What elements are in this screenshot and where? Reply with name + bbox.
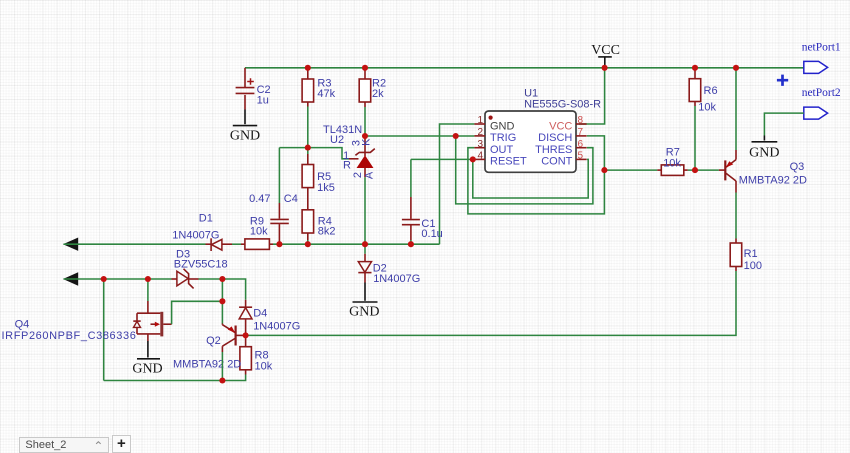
diode D4 1N4007G xyxy=(239,300,300,336)
wire D3 to D4 branch xyxy=(199,279,246,300)
transistor Q4 IRFP260 xyxy=(2,301,172,342)
svg-text:GND: GND xyxy=(749,146,779,161)
diode D2 1N4007G xyxy=(358,254,420,285)
svg-text:6: 6 xyxy=(578,139,584,150)
svg-text:Q3: Q3 xyxy=(790,161,805,173)
svg-text:C4: C4 xyxy=(284,193,298,205)
pin 4 RESET xyxy=(474,151,527,168)
svg-text:VCC: VCC xyxy=(591,43,620,58)
svg-text:3: 3 xyxy=(477,139,483,150)
wire R6 bottom xyxy=(694,106,696,170)
net flag arrow 1 xyxy=(63,238,78,251)
svg-text:R: R xyxy=(343,159,351,171)
power flag VCC xyxy=(591,43,620,68)
wire TL431 R-pin from divider xyxy=(308,148,349,159)
svg-text:GND: GND xyxy=(490,120,515,132)
wire ground rail right xyxy=(273,243,440,245)
wire left vertical xyxy=(103,279,105,381)
ground GND (C2) xyxy=(230,110,260,144)
svg-text:0.47: 0.47 xyxy=(249,193,270,205)
svg-text:Q4: Q4 xyxy=(15,319,30,331)
ground GND (netPort2) xyxy=(749,136,779,161)
svg-text:OUT: OUT xyxy=(490,144,514,156)
resistor R6 xyxy=(689,68,717,114)
wire D1 to R9 xyxy=(232,243,241,245)
wire OUT loop to DISCH/R7 node xyxy=(468,136,605,214)
wire netPort2 to ground xyxy=(764,113,803,135)
svg-text:47k: 47k xyxy=(317,88,335,100)
wire Q3 emitter up xyxy=(735,68,737,150)
svg-text:D4: D4 xyxy=(253,308,267,320)
wire upper rail of low side xyxy=(64,278,172,280)
pin 7 DISCH xyxy=(538,127,586,144)
wire C4 top to divider node xyxy=(279,147,307,149)
svg-text:netPort1: netPort1 xyxy=(802,42,841,54)
resistor R2 xyxy=(359,68,386,107)
wire pin1 GND to ground rail xyxy=(440,124,475,244)
svg-text:2k: 2k xyxy=(372,88,384,100)
ground GND (D2) xyxy=(349,283,379,320)
svg-text:10k: 10k xyxy=(698,102,716,114)
capacitor C1 xyxy=(402,159,443,244)
svg-text:netPort2: netPort2 xyxy=(802,87,841,99)
resistor R9 xyxy=(241,216,273,250)
wire DISCH node to R7 xyxy=(604,169,657,171)
transistor Q2 MMBTA92 xyxy=(173,324,246,371)
svg-text:1N4007G: 1N4007G xyxy=(172,230,219,242)
pin 3 OUT xyxy=(474,139,513,156)
capacitor C2 xyxy=(236,68,271,110)
svg-text:10k: 10k xyxy=(663,158,681,170)
resistor R3 xyxy=(302,68,336,107)
svg-text:100: 100 xyxy=(744,260,762,272)
svg-text:1N4007G: 1N4007G xyxy=(373,273,420,285)
wire rail to D2 xyxy=(364,244,366,254)
svg-text:THRES: THRES xyxy=(535,144,572,156)
svg-text:1u: 1u xyxy=(257,95,269,107)
wire ground rail left xyxy=(64,243,206,245)
wire Q3 collector down xyxy=(735,193,737,239)
plus polarity mark xyxy=(777,75,788,86)
wire Q2 emitter drop xyxy=(221,279,223,324)
svg-text:R1: R1 xyxy=(744,248,758,260)
svg-text:1N4007G: 1N4007G xyxy=(253,321,300,333)
pin 6 THRES xyxy=(535,139,586,156)
diode U2 TL431N xyxy=(323,124,376,179)
svg-text:BZV55C18: BZV55C18 xyxy=(174,259,228,271)
wire pin8 to VCC xyxy=(579,68,605,124)
diode D3 BZV55C18 xyxy=(172,249,228,289)
transistor Q3 MMBTA92 xyxy=(719,150,807,193)
svg-text:10k: 10k xyxy=(250,226,268,238)
resistor R8 xyxy=(240,335,273,374)
svg-text:2: 2 xyxy=(477,127,483,138)
svg-text:GND: GND xyxy=(349,305,379,320)
pin 1 GND xyxy=(474,115,514,132)
svg-text:R6: R6 xyxy=(704,85,718,97)
resistor R1 xyxy=(730,239,762,273)
wire R2 bottom to K node xyxy=(364,107,366,136)
wire TL431 anode down xyxy=(364,177,366,244)
svg-text:NE555G-S08-R: NE555G-S08-R xyxy=(524,99,601,111)
resistor R5 xyxy=(302,148,335,195)
wire R8 bottom rail xyxy=(104,375,246,381)
wire R7 to Q3 base xyxy=(688,169,719,171)
svg-text:10k: 10k xyxy=(255,361,273,373)
op-amp U1 NE555 body xyxy=(485,88,601,173)
svg-text:VCC: VCC xyxy=(549,120,572,132)
pin 8 VCC xyxy=(549,115,586,132)
svg-text:7: 7 xyxy=(578,127,584,138)
wire K node to pin2 xyxy=(365,135,474,137)
svg-text:5: 5 xyxy=(578,151,584,162)
svg-text:MMBTA92 2D: MMBTA92 2D xyxy=(173,359,241,371)
svg-text:IRFP260NPBF_C386336: IRFP260NPBF_C386336 xyxy=(2,330,137,342)
wire RESET-CONT loop xyxy=(473,159,588,198)
svg-text:GND: GND xyxy=(230,129,260,144)
svg-text:U2: U2 xyxy=(330,134,344,146)
net port netPort2 xyxy=(802,87,841,119)
wire top VCC rail xyxy=(245,67,804,69)
diode D1 1N4007G xyxy=(172,213,232,252)
svg-text:8: 8 xyxy=(578,115,584,126)
svg-text:MMBTA92 2D: MMBTA92 2D xyxy=(739,175,807,187)
wire R5-R4 xyxy=(307,188,309,210)
wire gate loop xyxy=(172,301,223,324)
svg-text:1: 1 xyxy=(477,115,483,126)
wire R1 bottom long run xyxy=(246,271,736,335)
wire R3 bottom xyxy=(307,107,309,148)
svg-text:D1: D1 xyxy=(199,213,213,225)
svg-text:2: 2 xyxy=(352,172,364,178)
svg-text:RESET: RESET xyxy=(490,156,527,168)
svg-text:GND: GND xyxy=(132,362,162,377)
sheet tab bar xyxy=(19,437,109,453)
ground GND (Q4) xyxy=(132,341,162,377)
svg-text:8k2: 8k2 xyxy=(318,226,336,238)
wire Q2 collector down xyxy=(221,352,223,381)
svg-text:0.1u: 0.1u xyxy=(421,228,442,240)
resistor R7 xyxy=(657,146,688,175)
svg-text:K: K xyxy=(361,138,373,146)
svg-text:R5: R5 xyxy=(317,171,331,183)
svg-text:TRIG: TRIG xyxy=(490,132,516,144)
svg-text:DISCH: DISCH xyxy=(538,132,572,144)
resistor R4 xyxy=(302,210,335,244)
svg-text:Q2: Q2 xyxy=(206,335,221,347)
wire RESET row xyxy=(411,158,475,160)
pin 2 TRIG xyxy=(474,127,516,144)
svg-text:1k5: 1k5 xyxy=(317,182,335,194)
capacitor C4 xyxy=(249,148,298,245)
wire drain drop xyxy=(147,279,149,301)
svg-text:CONT: CONT xyxy=(541,156,572,168)
net port netPort1 xyxy=(802,42,841,74)
wire TRIG-THRES loop xyxy=(456,136,593,204)
svg-text:4: 4 xyxy=(477,151,483,162)
pin 5 CONT xyxy=(541,151,586,168)
net flag arrow 2 xyxy=(63,272,78,285)
